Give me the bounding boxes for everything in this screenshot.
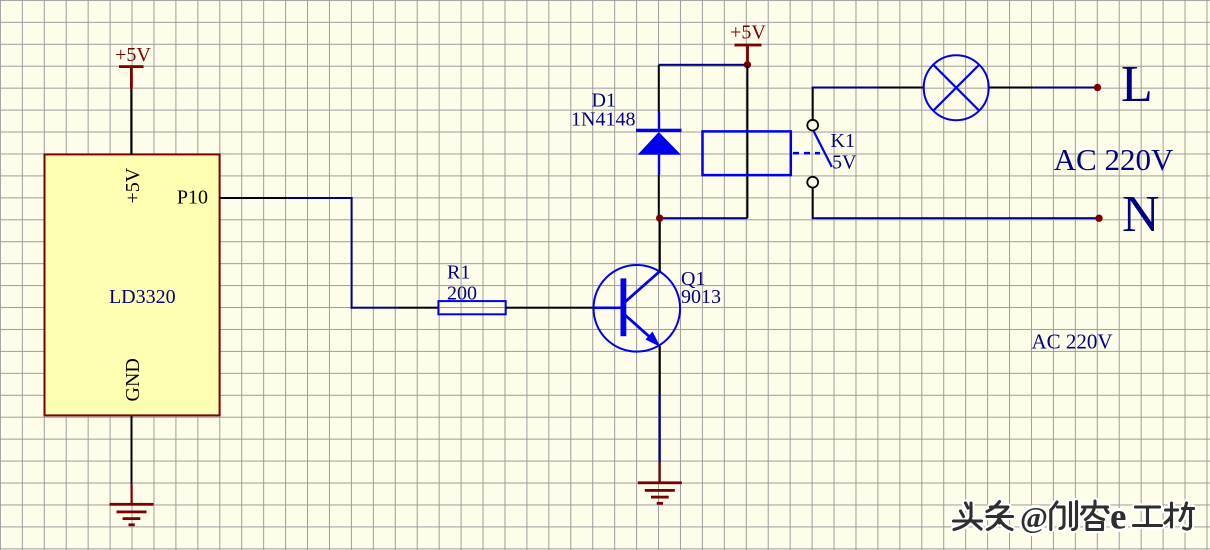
P10 pin	[220, 197, 288, 199]
lamp left pin	[880, 87, 925, 89]
lamp right pin	[989, 87, 1033, 89]
chip GND pin wire	[131, 416, 133, 485]
switch top pin wire	[812, 88, 814, 120]
wire D1 top to +5V junction	[659, 64, 748, 66]
switch bottom terminal circle	[807, 177, 818, 188]
wire lamp to L terminal	[1033, 87, 1098, 89]
svg-text:L: L	[1121, 56, 1153, 113]
watermark char 坊	[1165, 503, 1194, 529]
watermark char 创	[1051, 502, 1077, 530]
relay K1 coil box	[703, 131, 791, 175]
power port +5V (left) stem	[130, 66, 133, 89]
transistor Q1 base line	[593, 307, 621, 310]
wire P10 vertical	[351, 197, 353, 309]
power port +5V (middle) stem	[746, 44, 749, 65]
watermark 头条 @创客e工坊	[954, 497, 1194, 538]
svg-text:P10: P10	[177, 187, 208, 209]
transistor Q1 circle	[594, 265, 681, 352]
svg-text:LD3320: LD3320	[109, 286, 176, 308]
switch top terminal circle	[807, 120, 818, 131]
ground symbol (middle) bar4	[657, 502, 663, 505]
ground symbol (middle) bar2	[645, 489, 675, 492]
transistor Q1 base bar	[621, 278, 627, 336]
switch blade	[813, 131, 831, 167]
diode D1 anode lead	[658, 155, 660, 175]
chip +5V pin wire	[130, 89, 132, 155]
svg-text:K1: K1	[831, 130, 855, 152]
ground symbol (middle) stem	[659, 462, 661, 483]
junction dot at +5V node	[744, 61, 751, 68]
transistor Q1 emitter arrowhead	[646, 332, 661, 348]
ground symbol (left) bar1	[110, 503, 154, 506]
relay K1 coil pin (vertical through box)	[746, 65, 748, 218]
diode D1 top pin	[658, 65, 660, 112]
svg-text:5V: 5V	[832, 152, 857, 174]
svg-text:200: 200	[447, 283, 477, 305]
ground symbol (left) bar3	[123, 517, 141, 520]
diode D1 cathode bar	[636, 129, 682, 132]
ground symbol (middle) bar3	[651, 496, 669, 499]
transistor Q1 emitter line	[625, 315, 657, 344]
svg-text:@: @	[1020, 502, 1048, 535]
ground symbol (left) bar4	[129, 523, 135, 526]
ground symbol (left) stem	[131, 485, 133, 505]
svg-text:GND: GND	[122, 358, 144, 401]
relay K1 actuator dashed line	[793, 152, 820, 155]
wire P10 horizontal	[288, 197, 353, 199]
diode D1 cathode lead	[658, 112, 660, 129]
svg-text:AC 220V: AC 220V	[1054, 142, 1174, 177]
diode D1 bottom pin	[658, 175, 660, 219]
lamp X stroke 2	[933, 65, 979, 111]
svg-text:1N4148: 1N4148	[571, 108, 635, 130]
svg-text:R1: R1	[447, 261, 470, 283]
wire emitter to ground	[659, 394, 661, 462]
watermark char 头	[954, 503, 982, 530]
lamp X stroke 1	[933, 65, 979, 111]
ground symbol (left) bar2	[117, 511, 147, 514]
junction dot at D1 bottom	[656, 215, 663, 222]
emitter pin wire	[659, 346, 661, 394]
resistor R1 right pin / base wire	[506, 307, 594, 309]
IC U1 LD3320 body	[45, 154, 220, 415]
collector pin wire	[659, 218, 661, 271]
svg-text:AC 220V: AC 220V	[1031, 330, 1112, 354]
power port +5V (middle) bar	[735, 44, 762, 47]
resistor R1 left pin	[399, 307, 439, 309]
wire to R1	[351, 307, 399, 309]
watermark char 条	[987, 502, 1013, 530]
svg-text:+5V: +5V	[122, 167, 144, 203]
wire D1 bottom to relay pin	[660, 217, 748, 219]
switch bottom pin wire	[812, 188, 814, 218]
transistor Q1 collector line	[625, 271, 661, 303]
svg-text:+5V: +5V	[115, 44, 151, 66]
lamp circle	[924, 55, 989, 120]
wire switch to lamp	[812, 87, 880, 89]
wire N line	[812, 217, 1099, 219]
watermark char 客	[1082, 501, 1109, 530]
svg-text:+5V: +5V	[730, 22, 766, 44]
diode D1 triangle	[638, 132, 681, 155]
resistor R1 body	[438, 301, 505, 314]
watermark char 工	[1134, 507, 1162, 526]
svg-text:N: N	[1122, 186, 1160, 243]
ground symbol (middle) bar1	[638, 481, 682, 484]
svg-text:9013: 9013	[681, 286, 721, 308]
svg-text:e: e	[1110, 497, 1126, 538]
power port +5V (left) bar	[119, 65, 144, 68]
L terminal dot	[1094, 84, 1101, 91]
N terminal dot	[1095, 215, 1102, 222]
